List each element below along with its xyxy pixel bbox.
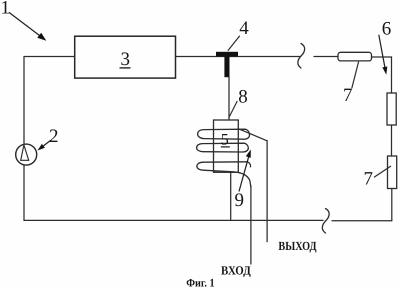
- svg-text:5: 5: [221, 131, 229, 148]
- svg-text:Фиг. 1: Фиг. 1: [186, 277, 215, 289]
- svg-text:7: 7: [364, 169, 374, 190]
- svg-text:7: 7: [343, 85, 353, 106]
- svg-text:9: 9: [235, 190, 245, 211]
- svg-text:ВХОД: ВХОД: [221, 264, 251, 278]
- svg-text:3: 3: [121, 49, 131, 70]
- svg-text:4: 4: [239, 18, 249, 39]
- svg-text:8: 8: [238, 86, 248, 107]
- svg-text:ВЫХОД: ВЫХОД: [278, 239, 317, 253]
- svg-text:1: 1: [1, 0, 11, 19]
- svg-text:6: 6: [382, 19, 392, 40]
- svg-text:2: 2: [49, 126, 59, 147]
